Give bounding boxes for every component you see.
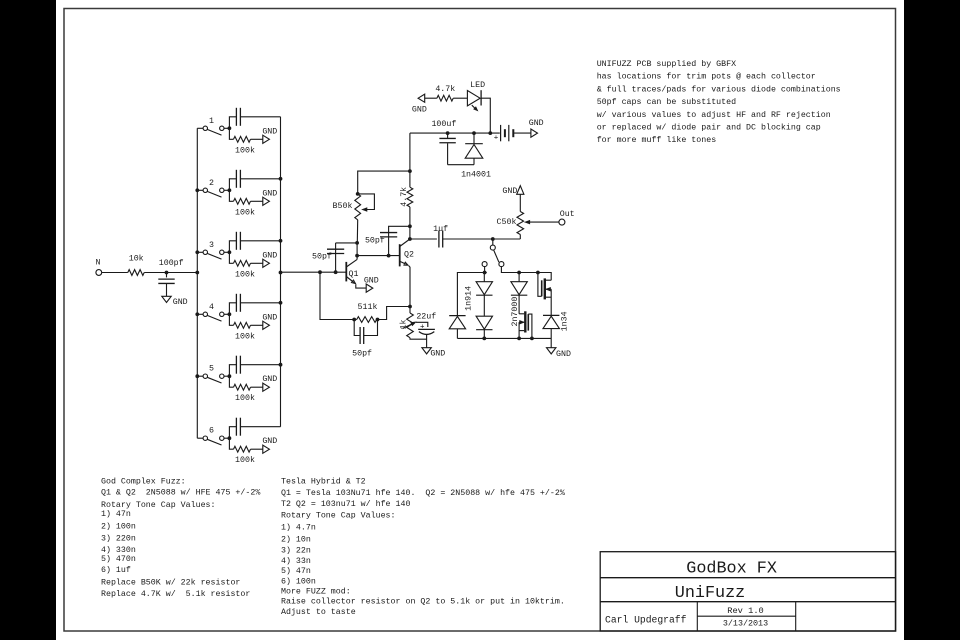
resistor 100k position 6 xyxy=(229,438,262,465)
svg-text:3/13/2013: 3/13/2013 xyxy=(723,619,768,629)
junction rail 2n7000 column xyxy=(517,271,521,275)
capacitor tone 5 xyxy=(229,356,280,377)
capacitor 50pf feedback Q2 xyxy=(365,226,410,255)
switch clipping select xyxy=(482,239,504,267)
svg-text:2n7000: 2n7000 xyxy=(511,297,520,327)
svg-text:Q1: Q1 xyxy=(349,270,359,279)
wire collector to 1uf xyxy=(410,238,437,240)
junction 100uf xyxy=(446,131,450,135)
wire node to rotary bus xyxy=(167,272,198,274)
capacitor tone 3 xyxy=(229,232,280,253)
ground position 2 xyxy=(262,189,277,205)
ground position 1 xyxy=(262,127,277,143)
junction output tap xyxy=(408,237,412,241)
svg-text:God Complex Fuzz:: God Complex Fuzz: xyxy=(101,477,186,487)
diode 1n914 pair lower xyxy=(476,295,492,338)
title block divider 2 xyxy=(600,601,895,603)
wire input to 10k xyxy=(102,272,128,274)
svg-text:Raise collector resistor on Q2: Raise collector resistor on Q2 to 5.1k o… xyxy=(281,597,565,607)
svg-text:3) 22n: 3) 22n xyxy=(281,545,311,555)
ground at 22uf xyxy=(422,348,431,354)
left black scan border xyxy=(0,0,56,640)
resistor 511k xyxy=(354,302,377,322)
junction 511k left xyxy=(352,318,356,322)
junction 1n4001 xyxy=(472,131,476,135)
svg-text:Q2: Q2 xyxy=(404,251,414,260)
svg-text:50pf: 50pf xyxy=(312,252,332,262)
capacitor 50pf parallel xyxy=(352,320,377,359)
diode 1n34 xyxy=(543,315,559,338)
junction LED drop xyxy=(488,131,492,135)
node input junction xyxy=(165,271,169,275)
svg-text:3) 220n: 3) 220n xyxy=(101,534,136,544)
svg-text:+: + xyxy=(494,135,499,143)
svg-text:6) 100n: 6) 100n xyxy=(281,576,316,586)
right black scan border xyxy=(904,0,960,640)
svg-text:3: 3 xyxy=(209,241,214,250)
svg-text:100k: 100k xyxy=(235,269,255,279)
switch position 3 xyxy=(197,241,231,259)
svg-text:or replaced w/ diode pair and: or replaced w/ diode pair and DC blockin… xyxy=(597,123,821,133)
ground at diode network xyxy=(547,348,556,354)
rotary left bus wire xyxy=(196,128,198,438)
switch position 1 xyxy=(197,117,231,135)
junction 50pf to collector xyxy=(355,241,359,245)
svg-text:Q1 = Tesla 103Nu71 hfe 140. Q: Q1 = Tesla 103Nu71 hfe 140. Q2 = 2N5088 … xyxy=(281,488,565,498)
title block vertical divider right xyxy=(795,602,797,631)
junction bottom rail 2n7000 gate xyxy=(530,337,534,341)
svg-text:GND: GND xyxy=(262,375,277,384)
svg-text:N: N xyxy=(96,259,101,268)
junction left bus xyxy=(195,374,199,378)
svg-text:Rev 1.0: Rev 1.0 xyxy=(727,606,764,616)
svg-text:Rotary Tone Cap Values:: Rotary Tone Cap Values: xyxy=(101,500,216,510)
svg-text:GND: GND xyxy=(430,350,445,359)
svg-text:100k: 100k xyxy=(235,331,255,341)
svg-text:4.7k: 4.7k xyxy=(435,84,455,94)
svg-text:6) 1uf: 6) 1uf xyxy=(101,565,131,575)
svg-text:B50k: B50k xyxy=(333,201,353,211)
svg-text:50pf: 50pf xyxy=(365,236,385,246)
output jack Out xyxy=(559,219,565,225)
diode rail bottom wire xyxy=(457,337,551,339)
svg-text:6: 6 xyxy=(209,427,214,436)
notes bottom middle xyxy=(281,477,565,617)
svg-text:UNIFUZZ PCB supplied by GBFX: UNIFUZZ PCB supplied by GBFX xyxy=(597,59,736,69)
junction input left bus xyxy=(195,271,199,275)
battery 9V xyxy=(494,125,514,143)
wire base node to 511k xyxy=(320,272,354,319)
notes top right xyxy=(597,59,841,145)
svg-text:Tesla Hybrid & T2: Tesla Hybrid & T2 xyxy=(281,477,366,487)
svg-text:5) 470n: 5) 470n xyxy=(101,554,136,564)
wire Q2 emitter down xyxy=(409,266,410,307)
wire gnd to C50k xyxy=(519,194,521,211)
capacitor tone 4 xyxy=(229,294,280,315)
trimmer 1k xyxy=(398,307,416,338)
capacitor 22uf xyxy=(416,311,436,347)
ground position 5 xyxy=(262,375,277,391)
svg-text:4: 4 xyxy=(209,303,214,312)
title block border xyxy=(600,552,895,631)
potentiometer C50k xyxy=(497,212,559,240)
wire gnd to 4.7k xyxy=(425,97,437,99)
wire 1k bottom to 22uf bottom xyxy=(410,338,427,340)
wire switch left throw to diode rail xyxy=(484,266,486,272)
title block divider 1 xyxy=(600,577,895,579)
transistor Q2 xyxy=(400,239,414,266)
junction left bus xyxy=(195,312,199,316)
rotary right bus wire xyxy=(280,117,282,427)
capacitor tone 1 xyxy=(229,108,280,129)
ground at battery xyxy=(531,129,538,137)
svg-text:Replace B50K w/ 22k resistor: Replace B50K w/ 22k resistor xyxy=(101,578,240,588)
diode 1n4001 xyxy=(461,133,491,180)
notes bottom left xyxy=(101,477,260,600)
wire 10k to node xyxy=(144,272,166,274)
svg-text:GND: GND xyxy=(556,350,571,359)
svg-text:T2 Q2 = 103nu71 w/ hfe 140: T2 Q2 = 103nu71 w/ hfe 140 xyxy=(281,499,410,509)
capacitor 50pf feedback Q1 xyxy=(312,243,357,272)
title block rev/date divider xyxy=(697,615,795,617)
svg-text:GND: GND xyxy=(262,189,277,198)
junction left bus xyxy=(195,188,199,192)
wire Q1 collector to Q2 base xyxy=(357,255,400,257)
resistor 100k position 2 xyxy=(229,190,262,217)
junction clip switch tap xyxy=(491,237,495,241)
svg-text:+: + xyxy=(420,323,425,331)
resistor 10k xyxy=(128,270,144,276)
wire battery to ground xyxy=(513,132,531,134)
svg-text:100pf: 100pf xyxy=(159,258,184,268)
power rail wire xyxy=(410,132,500,134)
junction 50pf bottom xyxy=(387,254,391,258)
svg-text:5) 47n: 5) 47n xyxy=(281,566,311,576)
svg-text:GND: GND xyxy=(262,313,277,322)
svg-text:GND: GND xyxy=(173,298,188,307)
diode 1n914 single xyxy=(449,316,465,339)
resistor 100k position 5 xyxy=(229,376,262,403)
svg-text:1n4001: 1n4001 xyxy=(461,171,491,180)
wire 100uf to 1n4001 bottom xyxy=(448,164,474,166)
junction rail 4.7k xyxy=(408,169,412,173)
ground at LED resistor xyxy=(418,94,425,102)
svg-text:GND: GND xyxy=(262,127,277,136)
svg-text:1n34: 1n34 xyxy=(561,311,570,331)
svg-text:1n914: 1n914 xyxy=(465,286,474,311)
diode rail top wire right xyxy=(501,266,551,280)
ground position 4 xyxy=(262,313,277,329)
capacitor tone 2 xyxy=(229,170,280,191)
svg-text:LED: LED xyxy=(470,81,485,90)
svg-text:1) 47n: 1) 47n xyxy=(101,509,131,519)
wire 1k wiper to 22uf plus xyxy=(416,322,428,327)
node base junction xyxy=(318,270,322,274)
svg-text:C50k: C50k xyxy=(497,217,517,227)
junction 50pf top xyxy=(408,224,412,228)
transistor 2n7000 left xyxy=(519,311,532,338)
junction right bus xyxy=(279,363,283,367)
switch position 5 xyxy=(197,365,231,383)
ground position 3 xyxy=(262,251,277,267)
junction bottom rail diode pair xyxy=(482,337,486,341)
junction right bus xyxy=(279,239,283,243)
svg-text:2: 2 xyxy=(209,179,214,188)
svg-text:50pf caps can be substituted: 50pf caps can be substituted xyxy=(597,97,736,107)
diode above 2n7000 xyxy=(511,273,527,314)
svg-text:GND: GND xyxy=(262,437,277,446)
transistor mosfet right xyxy=(538,273,551,316)
svg-text:4) 33n: 4) 33n xyxy=(281,556,311,566)
svg-text:w/ various values to adjust HF: w/ various values to adjust HF and RF re… xyxy=(597,110,831,120)
svg-text:2) 10n: 2) 10n xyxy=(281,534,311,544)
wire 511k to emitter node xyxy=(378,307,411,320)
wire Q1 collector xyxy=(356,243,358,260)
svg-text:22uf: 22uf xyxy=(416,311,436,321)
svg-text:1) 4.7n: 1) 4.7n xyxy=(281,522,316,532)
svg-text:100k: 100k xyxy=(235,145,255,155)
capacitor 1uf xyxy=(433,224,448,248)
resistor 4.7k LED xyxy=(435,84,455,101)
wire rail corner to B50k xyxy=(358,171,410,194)
svg-text:Rotary Tone Cap Values:: Rotary Tone Cap Values: xyxy=(281,510,396,520)
switch position 2 xyxy=(197,179,231,197)
wire Q1 emitter to ground xyxy=(356,284,366,288)
node 50pf bottom junction xyxy=(334,270,338,274)
svg-text:511k: 511k xyxy=(358,302,378,312)
ground at 100pf xyxy=(162,296,171,302)
wire 4.7k to Q2 collector tap xyxy=(409,226,411,239)
junction input right bus xyxy=(279,271,283,275)
wire 1uf to C50k xyxy=(443,238,521,240)
svg-text:4.7k: 4.7k xyxy=(399,187,409,207)
svg-text:GND: GND xyxy=(262,251,277,260)
svg-text:100uf: 100uf xyxy=(431,119,456,129)
ground at Q1 emitter xyxy=(366,284,373,292)
svg-text:100k: 100k xyxy=(235,455,255,465)
resistor 100k position 1 xyxy=(229,128,262,155)
svg-text:GND: GND xyxy=(529,119,544,128)
svg-text:has locations for trim pots @: has locations for trim pots @ each colle… xyxy=(597,72,816,82)
svg-text:1k: 1k xyxy=(398,320,408,330)
diode LED xyxy=(467,81,485,111)
title block vertical divider left xyxy=(696,602,698,631)
svg-text:GND: GND xyxy=(412,106,427,115)
resistor 100k position 4 xyxy=(229,314,262,341)
svg-text:50pf: 50pf xyxy=(352,349,372,359)
wire bus to Q1 base xyxy=(281,271,347,273)
diode rail top wire left xyxy=(457,273,486,316)
svg-text:UniFuzz: UniFuzz xyxy=(675,584,746,603)
wire bottom rail to ground xyxy=(550,338,552,347)
junction rail switch xyxy=(483,271,487,275)
potentiometer B50k xyxy=(333,194,375,220)
ground above C50k xyxy=(517,186,524,195)
diode 1n914 pair upper xyxy=(476,273,492,296)
svg-text:More FUZZ mod:: More FUZZ mod: xyxy=(281,586,351,596)
svg-text:100k: 100k xyxy=(235,207,255,217)
resistor 100k position 3 xyxy=(229,252,262,279)
svg-text:100k: 100k xyxy=(235,393,255,403)
svg-text:GND: GND xyxy=(364,276,379,285)
ground position 6 xyxy=(262,437,277,453)
wire 4.7k to LED xyxy=(453,97,467,99)
junction collector to Q2 base wire xyxy=(355,254,359,258)
junction B50k top xyxy=(356,192,360,196)
svg-text:& full traces/pads for various: & full traces/pads for various diode com… xyxy=(597,84,841,94)
resistor 4.7k xyxy=(399,171,413,226)
svg-text:GND: GND xyxy=(502,187,517,196)
wire power to rail xyxy=(409,133,411,171)
capacitor tone 6 xyxy=(229,418,280,439)
capacitor 100uf xyxy=(431,119,456,165)
junction bottom rail 2n7000 source xyxy=(517,337,521,341)
svg-text:Adjust to taste: Adjust to taste xyxy=(281,607,356,617)
svg-text:4) 330n: 4) 330n xyxy=(101,545,136,555)
svg-text:10k: 10k xyxy=(129,253,144,263)
svg-text:1uf: 1uf xyxy=(433,224,448,234)
junction rail mosfet gate xyxy=(536,271,540,275)
svg-text:1: 1 xyxy=(209,117,214,126)
input jack terminal xyxy=(96,270,102,276)
transistor Q1 xyxy=(346,259,358,283)
svg-text:GodBox FX: GodBox FX xyxy=(686,560,777,579)
switch position 4 xyxy=(197,303,231,321)
svg-text:2) 100n: 2) 100n xyxy=(101,521,136,531)
junction left bus xyxy=(195,250,199,254)
junction right bus xyxy=(279,301,283,305)
junction emitter node xyxy=(408,305,412,309)
wire LED to power rail xyxy=(481,98,490,133)
svg-text:for more muff like tones: for more muff like tones xyxy=(597,135,717,145)
switch position 6 xyxy=(197,427,231,445)
svg-text:Carl Updegraff: Carl Updegraff xyxy=(605,614,687,625)
junction 511k right xyxy=(376,318,380,322)
svg-text:Out: Out xyxy=(560,210,575,219)
svg-text:Replace 4.7K w/ 5.1k resistor: Replace 4.7K w/ 5.1k resistor xyxy=(101,589,250,599)
svg-text:Q1 & Q2 2N5088 w/ HFE 475 +/-: Q1 & Q2 2N5088 w/ HFE 475 +/-2% xyxy=(101,488,260,498)
svg-text:5: 5 xyxy=(209,365,214,374)
wire B50k to Q1 collector xyxy=(356,220,358,243)
junction right bus xyxy=(279,177,283,181)
